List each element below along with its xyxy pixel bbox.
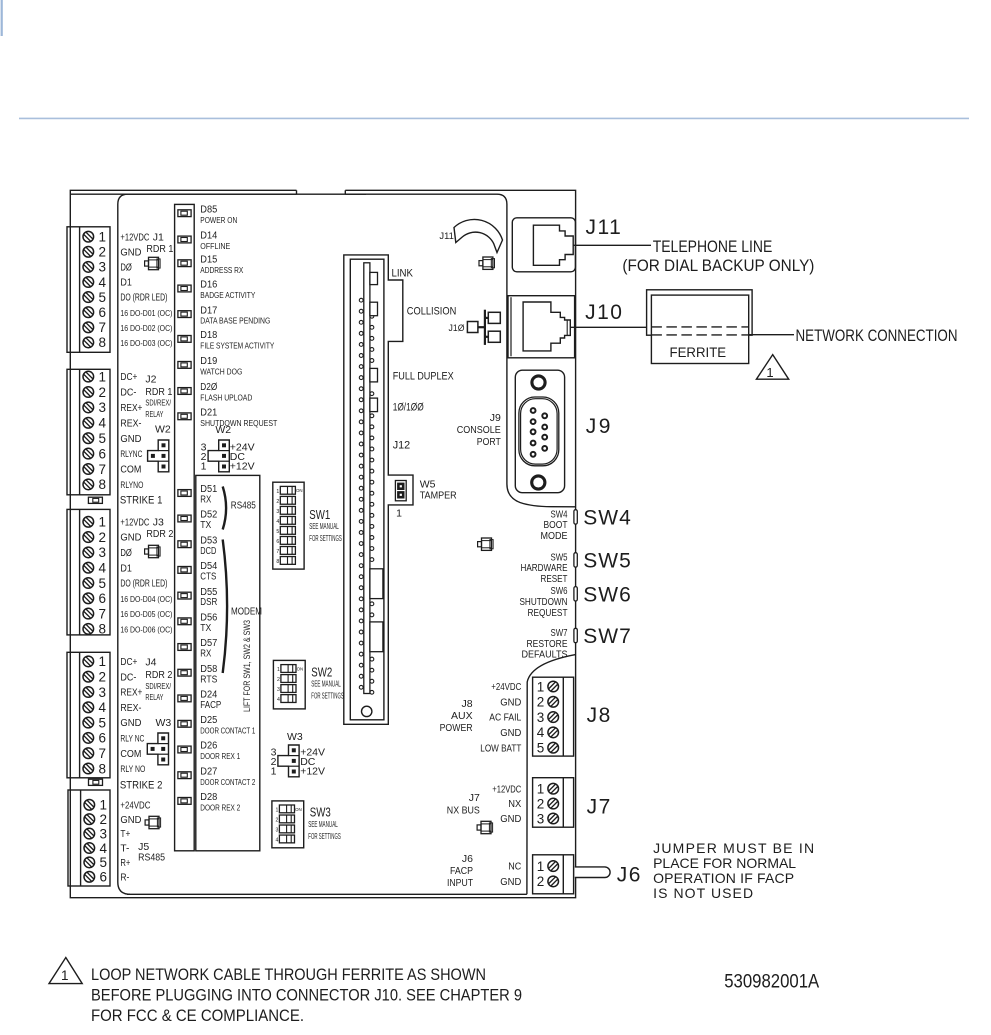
svg-text:1: 1: [99, 515, 107, 530]
svg-text:16 DO-D04 (OC): 16 DO-D04 (OC): [120, 594, 172, 604]
svg-text:RDR 2: RDR 2: [145, 669, 172, 681]
svg-text:SW4: SW4: [551, 509, 568, 520]
svg-text:8: 8: [99, 477, 107, 492]
svg-text:2: 2: [99, 385, 107, 400]
LED D28: [178, 792, 241, 812]
svg-text:D1: D1: [120, 278, 132, 289]
svg-text:NX: NX: [508, 799, 521, 810]
svg-text:(FOR DIAL BACKUP ONLY): (FOR DIAL BACKUP ONLY): [622, 256, 814, 275]
label J1 RDR 1: [146, 231, 173, 255]
switch SW4: [541, 507, 632, 543]
svg-text:DOOR CONTACT 1: DOOR CONTACT 1: [200, 725, 255, 735]
svg-text:7: 7: [99, 606, 107, 621]
connector icon J5: [145, 816, 160, 828]
svg-text:SW1: SW1: [309, 508, 330, 522]
svg-text:RS485: RS485: [231, 501, 256, 512]
svg-text:GND: GND: [120, 533, 141, 544]
svg-text:J6: J6: [462, 853, 473, 865]
svg-text:J8: J8: [587, 704, 612, 727]
svg-text:BEFORE PLUGGING INTO CONNECTOR: BEFORE PLUGGING INTO CONNECTOR J10. SEE …: [91, 986, 522, 1004]
svg-text:8: 8: [276, 559, 279, 565]
svg-text:1Ø/1ØØ: 1Ø/1ØØ: [393, 402, 424, 414]
svg-text:HARDWARE: HARDWARE: [521, 563, 568, 574]
svg-text:COLLISION: COLLISION: [407, 305, 457, 317]
svg-text:W2: W2: [215, 424, 231, 436]
svg-text:5: 5: [276, 529, 279, 535]
svg-text:D27: D27: [200, 766, 217, 777]
footnote triangle 1 at ferrite: [756, 355, 788, 380]
svg-text:4: 4: [100, 841, 108, 856]
jumper W3 legend: [271, 731, 325, 777]
connector J4 terminal block: [67, 652, 110, 778]
svg-text:GND: GND: [500, 814, 521, 825]
svg-text:5: 5: [99, 576, 107, 591]
svg-text:D19: D19: [200, 356, 217, 367]
svg-text:DC+: DC+: [120, 657, 137, 668]
svg-text:J12: J12: [393, 440, 411, 452]
svg-text:+12VDC: +12VDC: [120, 232, 149, 243]
page accent divider: [19, 117, 969, 119]
svg-text:DØ: DØ: [120, 548, 132, 559]
svg-text:3: 3: [99, 685, 107, 700]
svg-text:CONSOLE: CONSOLE: [457, 424, 501, 436]
svg-text:DOOR REX 2: DOOR REX 2: [200, 803, 240, 813]
svg-text:5: 5: [99, 431, 107, 446]
svg-text:SW6: SW6: [551, 586, 568, 597]
svg-text:TX: TX: [200, 623, 211, 634]
svg-text:SW7: SW7: [583, 625, 632, 648]
svg-text:SHUTDOWN: SHUTDOWN: [520, 597, 568, 608]
svg-text:FULL DUPLEX: FULL DUPLEX: [393, 371, 455, 383]
svg-text:RESTORE: RESTORE: [527, 639, 568, 650]
svg-text:D25: D25: [200, 715, 217, 726]
svg-text:7: 7: [99, 746, 107, 761]
svg-text:INPUT: INPUT: [447, 877, 473, 889]
svg-text:REX+: REX+: [120, 688, 142, 699]
svg-text:TELEPHONE LINE: TELEPHONE LINE: [653, 237, 773, 256]
LED COLLISION: [370, 302, 456, 317]
svg-text:6: 6: [99, 305, 107, 320]
svg-text:D18: D18: [200, 330, 217, 341]
LED column band: [175, 204, 195, 850]
svg-text:D16: D16: [200, 280, 217, 291]
svg-text:530982001A: 530982001A: [724, 971, 819, 992]
svg-text:DCD: DCD: [200, 546, 216, 557]
connector J12 mounting hole: [362, 706, 372, 716]
svg-text:RESET: RESET: [541, 574, 568, 585]
connector J7 terminal block: [533, 778, 574, 828]
svg-text:AUX: AUX: [451, 710, 473, 722]
reader connector icon RDR2: [145, 545, 160, 557]
svg-text:FOR SETTINGS: FOR SETTINGS: [311, 690, 344, 700]
svg-text:RS485: RS485: [138, 852, 165, 864]
note JUMPER MUST BE IN PLACE: [653, 840, 814, 901]
board inner outline: [118, 194, 576, 894]
svg-text:DATA BASE PENDING: DATA BASE PENDING: [200, 317, 270, 326]
svg-text:WATCH DOG: WATCH DOG: [200, 368, 242, 377]
svg-text:PORT: PORT: [477, 436, 501, 448]
svg-text:JUMPER MUST BE IN: JUMPER MUST BE IN: [653, 840, 814, 856]
svg-text:8: 8: [99, 335, 107, 350]
svg-text:ON: ON: [296, 488, 303, 493]
LED D2Ø: [178, 382, 252, 402]
LED D53: [178, 535, 218, 556]
svg-text:2: 2: [100, 812, 108, 827]
svg-text:J8: J8: [462, 698, 473, 710]
svg-text:DC-: DC-: [120, 672, 136, 683]
handset icon J11: [454, 219, 503, 252]
connector J8 terminal block: [533, 677, 574, 756]
svg-text:SEE MANUAL: SEE MANUAL: [311, 678, 341, 688]
svg-text:1: 1: [201, 461, 207, 473]
svg-text:REX-: REX-: [120, 418, 141, 429]
svg-text:SW5: SW5: [551, 552, 568, 563]
svg-text:ON: ON: [297, 666, 304, 671]
jumper W2 block: [148, 440, 169, 472]
LED labels box: [196, 475, 260, 850]
svg-text:5: 5: [99, 290, 107, 305]
svg-text:3: 3: [99, 260, 107, 275]
bracket RS485: [223, 487, 226, 530]
svg-text:GND: GND: [500, 728, 521, 739]
svg-text:ADDRESS RX: ADDRESS RX: [200, 266, 243, 275]
svg-text:W3: W3: [287, 731, 303, 743]
svg-text:6: 6: [100, 870, 108, 885]
pushbutton near J7: [477, 821, 493, 833]
svg-text:1: 1: [537, 782, 545, 797]
connector J12 right pin circles: [370, 314, 374, 694]
svg-text:FOR SETTINGS: FOR SETTINGS: [308, 831, 341, 841]
svg-text:REQUEST: REQUEST: [528, 608, 568, 619]
svg-text:4: 4: [99, 561, 107, 576]
svg-text:6: 6: [99, 591, 107, 606]
svg-text:5: 5: [537, 741, 545, 756]
svg-text:BADGE ACTIVITY: BADGE ACTIVITY: [200, 291, 255, 300]
svg-text:16 DO-D03 (OC): 16 DO-D03 (OC): [120, 338, 172, 348]
svg-text:SDI/REX/: SDI/REX/: [145, 398, 171, 408]
svg-text:2: 2: [99, 245, 107, 260]
svg-text:16 DO-D02 (OC): 16 DO-D02 (OC): [120, 323, 172, 333]
connector J12 left pin circles: [359, 298, 363, 689]
svg-text:2: 2: [276, 499, 279, 505]
svg-text:8: 8: [99, 761, 107, 776]
jumper W3 block: [147, 733, 168, 765]
svg-text:J7: J7: [587, 796, 612, 819]
bracket MODEM: [223, 540, 227, 674]
svg-text:+12V: +12V: [300, 766, 325, 778]
svg-text:J1: J1: [153, 231, 164, 243]
wire ferrite to network text: [749, 334, 794, 336]
connector J1 terminal block: [67, 227, 110, 352]
connector J5 pin labels: [120, 800, 150, 883]
svg-text:J9: J9: [586, 415, 613, 438]
svg-text:2: 2: [537, 695, 545, 710]
svg-text:STRIKE 2: STRIKE 2: [120, 779, 162, 791]
svg-text:LINK: LINK: [392, 267, 414, 279]
svg-text:1: 1: [537, 679, 545, 694]
svg-text:D53: D53: [200, 535, 217, 546]
svg-text:T-: T-: [120, 844, 129, 855]
svg-text:D52: D52: [200, 510, 217, 521]
jumper loop at J6: [575, 867, 610, 878]
label J2 RDR 1 SDI/REX/RELAY: [145, 374, 172, 419]
LED D55: [178, 587, 218, 608]
svg-text:DO (RDR LED): DO (RDR LED): [120, 293, 167, 304]
jumper W2 legend: [201, 424, 255, 473]
LED D85: [178, 204, 237, 224]
svg-text:RLYNO: RLYNO: [120, 480, 143, 490]
pushbutton near J11: [479, 257, 495, 269]
svg-text:7: 7: [99, 320, 107, 335]
svg-text:SW2: SW2: [311, 666, 332, 680]
svg-text:DC+: DC+: [120, 372, 137, 383]
svg-text:1: 1: [276, 489, 279, 495]
svg-text:2: 2: [275, 818, 278, 824]
svg-text:D54: D54: [200, 561, 217, 572]
svg-text:D56: D56: [200, 613, 217, 624]
connector J1 pin labels: [120, 232, 172, 348]
svg-text:FACP: FACP: [450, 865, 473, 877]
LED D56: [178, 613, 218, 634]
LED D57: [178, 638, 218, 659]
svg-text:D24: D24: [200, 690, 217, 701]
svg-text:TX: TX: [200, 520, 211, 531]
svg-text:4: 4: [537, 725, 545, 740]
connector J3 terminal block: [67, 509, 110, 636]
svg-text:6: 6: [99, 731, 107, 746]
svg-text:4: 4: [277, 697, 280, 703]
svg-text:LIFT FOR SW1, SW2 & SW3: LIFT FOR SW1, SW2 & SW3: [242, 620, 252, 712]
connector J5 terminal block: [68, 790, 110, 886]
label J5 RS485: [138, 841, 165, 864]
svg-text:DØ: DØ: [120, 263, 132, 274]
label J3 RDR 2: [146, 516, 173, 540]
LED D19: [178, 356, 242, 376]
svg-text:3: 3: [99, 545, 107, 560]
svg-text:6: 6: [99, 446, 107, 461]
svg-text:SW7: SW7: [551, 628, 568, 639]
svg-text:W2: W2: [155, 424, 171, 436]
svg-text:GND: GND: [500, 697, 521, 708]
LED D51: [178, 484, 218, 505]
wire J10 to ferrite: [570, 326, 651, 328]
svg-text:16 DO-D05 (OC): 16 DO-D05 (OC): [120, 609, 172, 619]
svg-text:R+: R+: [120, 858, 130, 869]
svg-text:1: 1: [100, 798, 108, 813]
svg-text:D14: D14: [200, 231, 217, 242]
svg-text:+12V: +12V: [230, 461, 255, 473]
connector J7 labels: [447, 784, 522, 825]
svg-text:RDR 1: RDR 1: [145, 386, 172, 398]
svg-text:SHUTDOWN REQUEST: SHUTDOWN REQUEST: [200, 419, 277, 428]
svg-text:1: 1: [396, 508, 402, 520]
svg-text:J10: J10: [585, 301, 623, 324]
svg-text:SW3: SW3: [310, 806, 331, 820]
svg-text:DC-: DC-: [120, 388, 136, 399]
svg-text:ON: ON: [295, 807, 302, 812]
connector J2 terminal block: [67, 369, 110, 495]
svg-text:STRIKE 1: STRIKE 1: [120, 494, 162, 506]
svg-text:1: 1: [99, 369, 107, 384]
connector J6 labels: [447, 853, 521, 889]
svg-text:3: 3: [277, 687, 280, 693]
svg-text:J4: J4: [145, 657, 156, 669]
connector J6 terminal block: [533, 855, 574, 894]
svg-text:RELAY: RELAY: [145, 692, 163, 702]
svg-text:J1Ø: J1Ø: [449, 323, 466, 334]
switch SW7: [522, 625, 632, 661]
svg-text:1: 1: [275, 808, 278, 814]
svg-text:GND: GND: [120, 815, 141, 826]
svg-text:1: 1: [766, 365, 773, 380]
page accent blue tick: [1, 0, 3, 36]
svg-text:DSR: DSR: [200, 597, 217, 608]
label J9 CONSOLE PORT: [457, 412, 501, 448]
svg-text:SW4: SW4: [583, 507, 632, 530]
svg-text:FACP: FACP: [200, 700, 221, 711]
svg-text:OFFLINE: OFFLINE: [200, 242, 230, 251]
svg-text:+24VDC: +24VDC: [120, 800, 150, 811]
svg-text:2: 2: [99, 670, 107, 685]
svg-text:FILE SYSTEM ACTIVITY: FILE SYSTEM ACTIVITY: [200, 342, 274, 351]
svg-text:T+: T+: [120, 829, 130, 840]
svg-text:J11: J11: [586, 216, 623, 239]
LED D16: [178, 280, 256, 300]
connector J9 DB9 console port: [515, 370, 564, 493]
connector J3 pin labels: [120, 517, 172, 634]
svg-text:1: 1: [99, 230, 107, 245]
svg-text:CTS: CTS: [200, 572, 216, 583]
svg-text:1: 1: [277, 667, 280, 673]
LED D26: [178, 741, 241, 761]
svg-text:1: 1: [537, 859, 545, 874]
svg-text:FLASH UPLOAD: FLASH UPLOAD: [200, 394, 252, 403]
connector J2 pin labels: [120, 372, 143, 490]
svg-text:D85: D85: [200, 204, 217, 215]
svg-text:J7: J7: [469, 792, 480, 804]
connector J12 header blocks: [370, 569, 383, 599]
svg-text:POWER: POWER: [440, 722, 473, 734]
svg-text:R-: R-: [120, 872, 129, 883]
svg-text:4: 4: [99, 700, 107, 715]
svg-text:RLY NC: RLY NC: [120, 734, 144, 744]
svg-text:DO (RDR LED): DO (RDR LED): [120, 579, 167, 590]
svg-text:REX+: REX+: [120, 403, 142, 414]
label J4 RDR 2 SDI/REX/RELAY: [145, 657, 172, 703]
LED D54: [178, 561, 218, 582]
svg-text:3: 3: [537, 710, 545, 725]
svg-text:D51: D51: [200, 484, 217, 495]
svg-text:COM: COM: [120, 749, 141, 760]
LED LINK: [370, 267, 414, 284]
switch SW6: [520, 583, 632, 619]
connector J12 card edge bar: [364, 263, 370, 694]
svg-text:D28: D28: [200, 792, 217, 803]
svg-text:W3: W3: [156, 717, 172, 729]
svg-text:D15: D15: [200, 254, 217, 265]
svg-text:COM: COM: [120, 465, 141, 476]
svg-text:J11: J11: [439, 231, 454, 242]
svg-text:2: 2: [277, 677, 280, 683]
connector J12 outline: [344, 255, 413, 724]
svg-text:NETWORK CONNECTION: NETWORK CONNECTION: [796, 326, 958, 345]
svg-text:RDR 2: RDR 2: [146, 528, 173, 540]
svg-text:D2Ø: D2Ø: [200, 382, 217, 393]
svg-text:1: 1: [61, 968, 69, 983]
svg-text:4: 4: [276, 519, 279, 525]
svg-text:RLYNC: RLYNC: [120, 449, 142, 459]
footnote text: [91, 966, 522, 1025]
svg-text:J6: J6: [617, 864, 642, 887]
svg-text:D57: D57: [200, 638, 217, 649]
LED D18: [178, 330, 275, 350]
svg-text:GND: GND: [120, 247, 141, 258]
board outer edge: [70, 190, 575, 897]
svg-text:SEE MANUAL: SEE MANUAL: [309, 521, 339, 531]
svg-text:6: 6: [276, 539, 279, 545]
switch SW5: [521, 550, 632, 586]
LED D14: [178, 231, 231, 251]
svg-text:2: 2: [537, 796, 545, 811]
svg-text:4: 4: [275, 838, 278, 844]
svg-text:5: 5: [99, 715, 107, 730]
svg-text:LOOP NETWORK CABLE THROUGH FER: LOOP NETWORK CABLE THROUGH FERRITE AS SH…: [91, 966, 486, 984]
LED D52: [178, 510, 218, 531]
svg-text:+12VDC: +12VDC: [492, 784, 521, 795]
svg-text:D17: D17: [200, 305, 217, 316]
svg-text:J9: J9: [490, 412, 501, 424]
svg-text:NC: NC: [508, 862, 521, 873]
svg-text:4: 4: [99, 416, 107, 431]
svg-text:DOOR REX 1: DOOR REX 1: [200, 751, 240, 761]
LED D21: [178, 408, 277, 428]
svg-text:FOR FCC & CE COMPLIANCE.: FOR FCC & CE COMPLIANCE.: [91, 1007, 304, 1025]
svg-text:GND: GND: [500, 877, 521, 888]
svg-text:7: 7: [276, 549, 279, 555]
DIP switch SW1: [273, 482, 304, 569]
svg-text:LOW BATT: LOW BATT: [480, 743, 521, 754]
svg-text:+12VDC: +12VDC: [120, 517, 149, 528]
svg-text:REX-: REX-: [120, 703, 141, 714]
ferrite: [647, 290, 753, 364]
LED D27: [178, 766, 256, 786]
svg-text:SW6: SW6: [583, 583, 632, 606]
svg-text:D21: D21: [200, 408, 217, 419]
fuse F2: [89, 779, 103, 785]
svg-text:GND: GND: [120, 434, 141, 445]
LED D15: [178, 254, 244, 274]
svg-text:3: 3: [276, 509, 279, 515]
svg-text:DOOR CONTACT 2: DOOR CONTACT 2: [200, 777, 255, 787]
pushbutton near SW5: [478, 538, 494, 550]
svg-text:RX: RX: [200, 495, 211, 506]
LED D17: [178, 305, 270, 325]
svg-text:2: 2: [99, 530, 107, 545]
svg-text:2: 2: [537, 874, 545, 889]
svg-text:16 DO-D06 (OC): 16 DO-D06 (OC): [120, 625, 172, 635]
DIP switch SW3: [272, 801, 304, 848]
jumper W5 block: [395, 481, 406, 501]
svg-text:4: 4: [99, 275, 107, 290]
svg-text:SEE MANUAL: SEE MANUAL: [308, 819, 338, 829]
wire J11 to telephone text: [573, 244, 651, 246]
svg-text:3: 3: [275, 828, 278, 834]
svg-text:DEFAULTS: DEFAULTS: [522, 650, 568, 661]
svg-text:FERRITE: FERRITE: [670, 344, 727, 360]
svg-text:RTS: RTS: [200, 674, 217, 685]
svg-text:3: 3: [100, 826, 108, 841]
LED D24: [178, 690, 222, 711]
